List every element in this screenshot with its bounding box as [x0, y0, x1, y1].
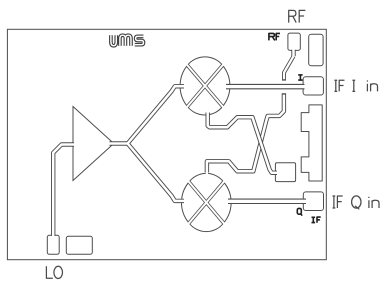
label IF bold	[312, 217, 321, 223]
IF I trace	[224, 84, 306, 90]
mixer M1 ring	[180, 57, 230, 115]
label Q bold	[297, 208, 302, 215]
capacitor pad	[275, 163, 295, 182]
notched pad	[301, 105, 322, 181]
label LO	[46, 266, 62, 278]
label IF Q in	[333, 196, 380, 209]
IF Q pad	[303, 192, 323, 211]
trace A upper-mixer to capacitor pad	[208, 111, 279, 173]
trace B lower-mixer to IF I stub	[207, 93, 284, 175]
RF pad	[288, 33, 300, 50]
mixer M2 diode cross	[188, 181, 225, 225]
top-right pad	[309, 34, 323, 66]
LO splitter trace	[108, 86, 186, 201]
label RF bold	[269, 33, 280, 40]
mixer M1 diode cross	[186, 64, 224, 108]
label RF top	[289, 10, 306, 22]
IF I pad	[303, 77, 323, 95]
amplifier A1	[73, 107, 114, 181]
RF input trace	[284, 49, 294, 81]
die outline	[7, 29, 326, 259]
label IF I in	[334, 80, 377, 91]
mixer M2 ring	[181, 173, 231, 231]
UMS logo	[111, 35, 144, 46]
LO pad	[47, 235, 59, 254]
IF Q trace	[226, 199, 308, 205]
label I bold	[298, 75, 302, 80]
LO input trace	[53, 145, 75, 237]
bottom pad	[66, 236, 92, 254]
